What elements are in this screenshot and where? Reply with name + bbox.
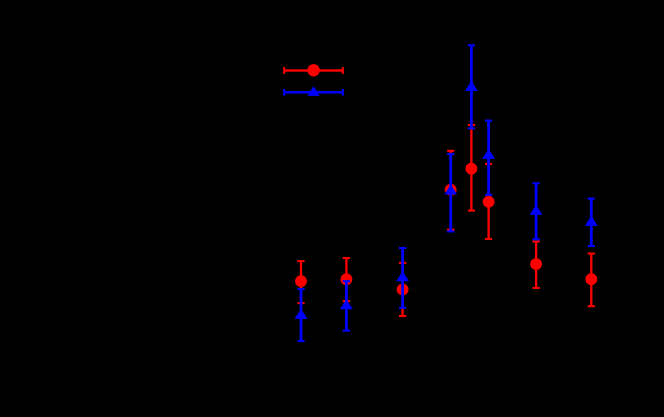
data point P6 blue errorbar	[482, 120, 495, 196]
data point P7 blue errorbar	[530, 182, 543, 240]
data point P7 red errorbar	[530, 240, 542, 289]
data point P5 red errorbar	[466, 124, 478, 212]
data point P2 red errorbar	[341, 257, 353, 302]
data point P6 red errorbar	[483, 163, 495, 240]
data point P2 blue errorbar	[340, 280, 353, 332]
data point P1 red errorbar	[295, 260, 307, 304]
data point P3 red errorbar	[397, 262, 409, 317]
data point P5 blue errorbar	[465, 44, 478, 129]
data point P8 blue errorbar	[585, 198, 598, 248]
data point P4 blue errorbar	[444, 153, 457, 233]
data point P8 red errorbar	[585, 252, 597, 307]
data point P3 blue errorbar	[396, 247, 409, 309]
data point P1 blue errorbar	[295, 288, 308, 342]
legend blue series sample	[283, 86, 344, 96]
data point P4 red errorbar	[445, 150, 457, 231]
legend red series sample	[283, 64, 344, 76]
